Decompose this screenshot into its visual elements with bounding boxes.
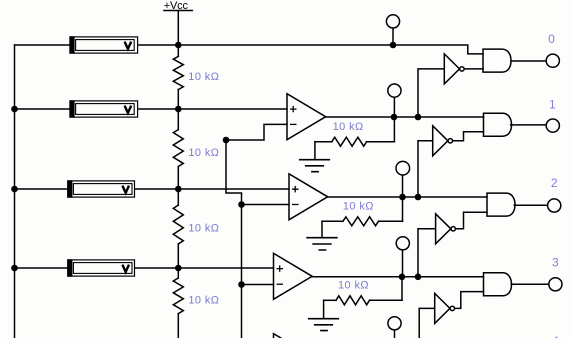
svg-text:3: 3 [552, 255, 559, 269]
svg-text:1: 1 [549, 98, 556, 112]
svg-text:10 kΩ: 10 kΩ [338, 280, 369, 292]
svg-text:0: 0 [548, 32, 555, 46]
svg-text:10 kΩ: 10 kΩ [188, 71, 219, 83]
svg-text:+Vcc: +Vcc [164, 0, 189, 12]
svg-text:10 kΩ: 10 kΩ [188, 147, 219, 159]
svg-text:4: 4 [552, 334, 559, 338]
svg-text:10 kΩ: 10 kΩ [188, 295, 219, 307]
svg-text:10 kΩ: 10 kΩ [343, 201, 374, 213]
svg-text:2: 2 [551, 176, 558, 190]
svg-text:10 kΩ: 10 kΩ [188, 223, 219, 235]
svg-text:10 kΩ: 10 kΩ [333, 121, 364, 133]
